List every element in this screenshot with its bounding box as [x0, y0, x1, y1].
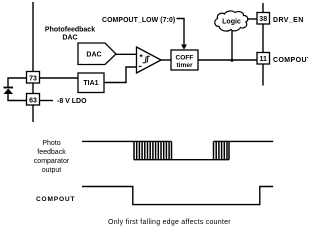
svg-text:Logic: Logic	[222, 19, 241, 26]
waveform burst 2 toggle bars	[214, 141, 230, 159]
waveform: photofeedback comparator output trace	[82, 141, 273, 159]
svg-text:73: 73	[29, 75, 37, 82]
svg-text:comparator: comparator	[34, 158, 70, 165]
wire: pin 63 stub to -8V LDO label	[40, 100, 54, 102]
svg-text:DRV_EN: DRV_EN	[273, 17, 304, 24]
svg-text:COMPOUT: COMPOUT	[273, 57, 308, 64]
pin box 73	[27, 72, 40, 84]
svg-text:38: 38	[259, 16, 267, 23]
svg-text:output: output	[42, 167, 62, 174]
waveform: COMPOUT trace	[82, 187, 273, 205]
DAC U1 (pointed block)	[78, 43, 116, 65]
wire: COFF timer output to COMPOUT pad 11	[198, 59, 257, 61]
wire: Logic cloud to pad 38	[247, 18, 257, 20]
wire: DAC output to comparator non-inverting input	[116, 53, 137, 55]
pin box 11	[257, 53, 270, 65]
svg-text:TIA1: TIA1	[83, 80, 98, 87]
svg-text:COMPOUT: COMPOUT	[36, 196, 75, 203]
waveform burst 1 toggle bars	[134, 141, 172, 159]
svg-text:63: 63	[29, 97, 37, 104]
svg-text:DAC: DAC	[62, 35, 77, 42]
wire: diode anode to pin 63	[8, 94, 27, 101]
wire: comparator output to COFF timer	[161, 59, 172, 61]
svg-text:COMPOUT_LOW (7:0): COMPOUT_LOW (7:0)	[102, 17, 175, 24]
label Photofeedback DAC	[45, 27, 95, 42]
comparator U2 with hysteresis	[137, 47, 162, 73]
svg-text:Photo: Photo	[42, 140, 60, 147]
junction node on COMPOUT net	[231, 59, 234, 62]
svg-text:COFF: COFF	[176, 55, 194, 62]
wire: TIA1 output to comparator inverting input	[104, 67, 137, 83]
diode D1 (cathode up)	[4, 88, 14, 95]
wire: pin 73 to diode branch	[8, 78, 27, 87]
pin box 63	[27, 94, 40, 106]
svg-text:Only first falling edge affect: Only first falling edge affects counter	[108, 219, 231, 226]
svg-text:timer: timer	[176, 62, 193, 69]
svg-text:feedback: feedback	[37, 149, 66, 156]
svg-text:Photofeedback: Photofeedback	[45, 27, 95, 34]
svg-text:11: 11	[259, 56, 267, 63]
pin box 38	[257, 13, 270, 25]
wire: COMPOUT_LOW elbow into COFF timer with arrowhead	[177, 19, 188, 50]
COFF timer block	[171, 50, 198, 70]
wire: left supply rail vertical	[32, 2, 34, 122]
wire: pin 73 to TIA1 input	[40, 77, 79, 79]
svg-text:DAC: DAC	[86, 52, 101, 59]
wire: junction up to Logic cloud	[231, 31, 233, 60]
label Photo feedback comparator output	[34, 140, 70, 174]
svg-text:-8 V LDO: -8 V LDO	[57, 98, 87, 105]
amplifier TIA1	[78, 73, 104, 93]
Logic cloud	[215, 11, 248, 31]
wire: right rail vertical through pads	[262, 3, 264, 86]
